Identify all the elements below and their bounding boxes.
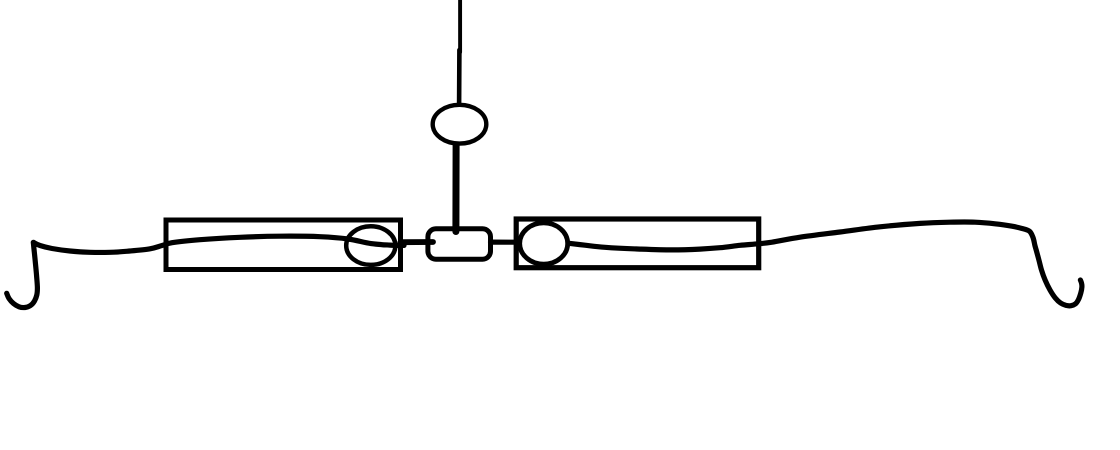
wire W3 (thick vertical from lamp to connector block) [452, 146, 459, 232]
wire W5 (right connector stub) [491, 240, 516, 245]
wire W7 (right lead from terminal to right hook) [568, 222, 1082, 306]
wire W6 (left lead with hook, through left box) [7, 236, 404, 307]
connector block X1 (rounded rectangle) [428, 229, 491, 259]
fuse box F2 (right rectangle) [516, 219, 759, 268]
wire W1 (top vertical feed, upper segment) [458, 0, 462, 52]
terminal C1 (circle in left box) [346, 226, 395, 265]
wire W4 (left connector stub) [401, 239, 434, 245]
lamp E1 (ellipse bulb) [433, 105, 487, 144]
fuse box F1 (left rectangle) [166, 220, 401, 270]
wire W2 (top vertical feed, lower segment) [457, 50, 462, 104]
terminal C2 (circle in right box) [520, 223, 568, 264]
